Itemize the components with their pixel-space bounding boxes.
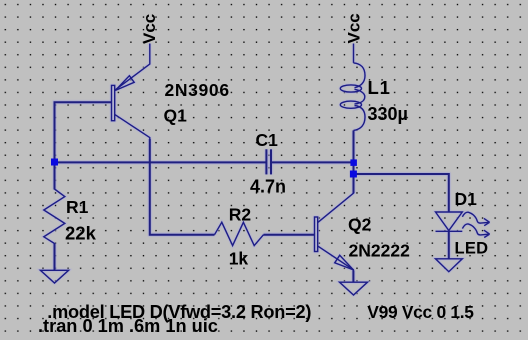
svg-text:2N2222: 2N2222 — [349, 241, 411, 261]
svg-text:Q1: Q1 — [164, 106, 188, 126]
svg-text:LED: LED — [455, 240, 489, 258]
svg-text:22k: 22k — [65, 223, 97, 244]
svg-text:R1: R1 — [66, 197, 89, 217]
svg-text:Vcc: Vcc — [345, 13, 364, 43]
svg-text:4.7n: 4.7n — [250, 177, 286, 197]
svg-text:Vcc: Vcc — [140, 14, 159, 44]
svg-text:Q2: Q2 — [348, 215, 372, 235]
svg-text:L1: L1 — [368, 77, 391, 98]
svg-text:1k: 1k — [229, 249, 249, 269]
svg-text:R2: R2 — [229, 205, 252, 225]
svg-text:330µ: 330µ — [368, 104, 408, 124]
svg-text:C1: C1 — [256, 130, 279, 150]
svg-text:V99 Vcc 0 1.5: V99 Vcc 0 1.5 — [367, 302, 474, 322]
svg-text:2N3906: 2N3906 — [165, 80, 230, 100]
svg-text:.tran 0 1m .6m 1n uic: .tran 0 1m .6m 1n uic — [38, 316, 218, 336]
svg-text:D1: D1 — [455, 189, 478, 209]
